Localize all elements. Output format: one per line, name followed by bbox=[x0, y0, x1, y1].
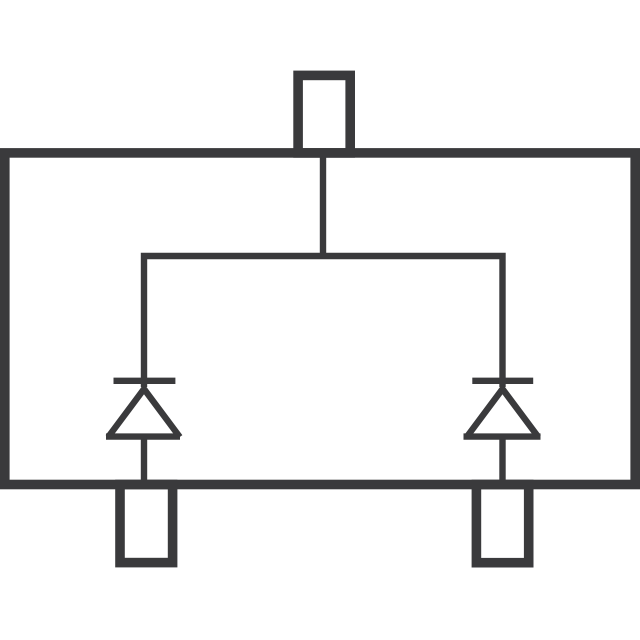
package outline bbox=[5, 153, 635, 485]
pin 1 lead (bottom left) bbox=[120, 485, 173, 563]
diode D2 triangle (anode) bbox=[467, 389, 539, 437]
wire: cathode bus bbox=[144, 256, 503, 387]
diode D2 triangle base bbox=[464, 433, 541, 439]
wire: pin 3 to cathode bus bbox=[320, 153, 326, 256]
diode D1 cathode bar bbox=[114, 378, 176, 384]
diode D1 triangle (anode) bbox=[108, 389, 180, 437]
diode D2 cathode bar bbox=[472, 378, 533, 384]
wire: D2 anode to pin 2 bbox=[499, 437, 505, 485]
pin 3 lead (top) bbox=[298, 75, 350, 152]
diode D1 triangle base bbox=[106, 433, 180, 439]
wire: D1 anode to pin 1 bbox=[141, 437, 147, 485]
pin 2 lead (bottom right) bbox=[476, 485, 528, 563]
